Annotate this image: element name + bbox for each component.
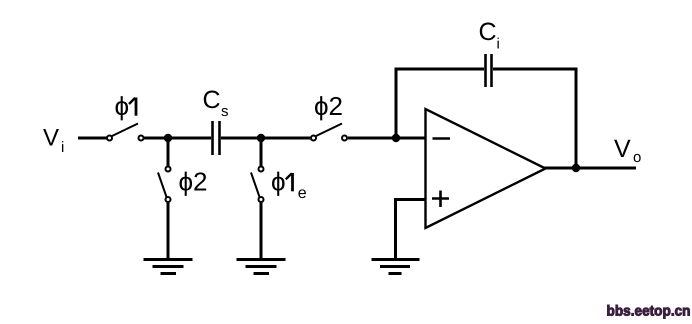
wire S1 to node A <box>144 137 168 140</box>
wire node A down to switch S3 <box>167 138 170 166</box>
label phi1 <box>115 91 137 121</box>
wire feedback riser node C up <box>395 68 398 141</box>
svg-text:o: o <box>633 149 641 166</box>
ground GND2 <box>237 260 286 274</box>
wire S3 to ground <box>167 203 170 260</box>
node A junction <box>164 134 172 142</box>
svg-text:V: V <box>43 125 59 152</box>
svg-text:s: s <box>221 103 229 120</box>
wire Vi to switch S1 <box>78 137 107 140</box>
label Ci <box>479 18 500 53</box>
svg-text:i: i <box>61 139 64 156</box>
svg-text:ϕ2: ϕ2 <box>179 167 208 197</box>
label Cs <box>203 86 229 120</box>
switch S1 phi1 <box>107 124 144 141</box>
svg-text:C: C <box>479 18 497 46</box>
wire node B to switch S2 <box>261 137 311 140</box>
svg-text:ϕ: ϕ <box>271 167 286 197</box>
node Vo output label <box>614 135 641 166</box>
label phi1e <box>271 167 307 203</box>
svg-text:e: e <box>298 185 307 202</box>
wire node A to Cs <box>168 137 211 140</box>
switch S2 phi2 <box>311 124 347 141</box>
wire op-amp output <box>544 167 636 170</box>
svg-text:ϕ2: ϕ2 <box>314 91 343 121</box>
wire node B down to switch S4 <box>260 138 263 166</box>
switch S4 phi1e <box>251 167 264 203</box>
capacitor Cs <box>213 121 220 155</box>
ground GND3 <box>372 260 420 274</box>
op-amp minus sign <box>433 137 451 140</box>
op-amp plus sign <box>432 191 449 208</box>
wire Cs to node B <box>221 137 261 140</box>
wire feedback top right <box>493 68 578 71</box>
switch S3 phi2 <box>158 167 171 203</box>
ground GND1 <box>144 260 193 274</box>
wire non-inverting input <box>394 198 425 201</box>
node output junction <box>572 164 580 172</box>
wire S2 to node C <box>348 137 396 140</box>
svg-text:i: i <box>497 36 500 53</box>
svg-text:C: C <box>203 86 221 114</box>
svg-text:V: V <box>614 135 631 163</box>
wire down to ground GND3 <box>394 200 397 260</box>
wire feedback down to output node <box>575 68 578 169</box>
svg-text:ϕ: ϕ <box>115 91 130 121</box>
capacitor Ci <box>486 54 492 87</box>
node C summing junction <box>392 134 400 142</box>
svg-text:bbs.eetop.cn: bbs.eetop.cn <box>607 304 691 320</box>
wire S4 to ground <box>260 203 263 260</box>
op-amp U1 <box>426 109 546 228</box>
wire feedback top left <box>395 68 485 71</box>
node B junction <box>257 134 265 142</box>
node Vi input label <box>43 125 64 157</box>
label phi2 top <box>314 91 343 121</box>
wire node C to op-amp inverting input <box>396 137 425 140</box>
label phi2 lower <box>179 167 208 197</box>
